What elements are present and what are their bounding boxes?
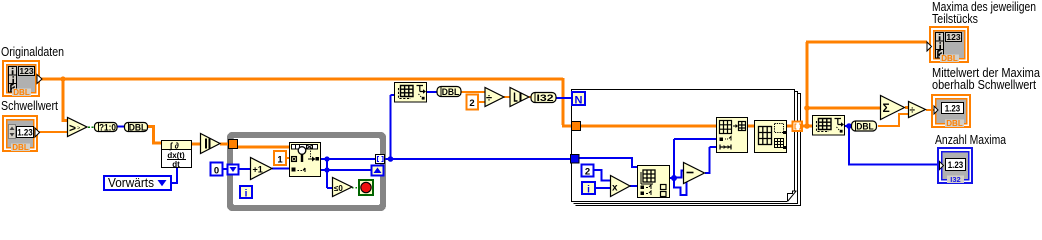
svg-text:Vorwärts: Vorwärts xyxy=(108,175,154,190)
svg-text:÷: ÷ xyxy=(486,93,492,105)
svg-text:>: > xyxy=(77,126,80,132)
svg-text:DBL: DBL xyxy=(941,54,958,63)
svg-text:∫ ∂: ∫ ∂ xyxy=(169,140,179,150)
svg-text:Teilstücks: Teilstücks xyxy=(932,11,978,26)
svg-text:1: 1 xyxy=(277,155,283,166)
svg-text:DBL: DBL xyxy=(12,143,29,152)
svg-text:Anzahl Maxima: Anzahl Maxima xyxy=(935,132,1007,147)
svg-text:0: 0 xyxy=(214,166,219,177)
svg-text:I32: I32 xyxy=(537,93,554,104)
svg-text:oberhalb Schwellwert: oberhalb Schwellwert xyxy=(932,77,1036,92)
svg-text:DBL: DBL xyxy=(129,122,147,133)
svg-text:DBL: DBL xyxy=(13,88,30,97)
svg-text:Schwellwert: Schwellwert xyxy=(1,98,58,113)
svg-text:÷: ÷ xyxy=(910,106,916,117)
svg-text:2: 2 xyxy=(585,167,590,178)
svg-text:dt: dt xyxy=(172,160,180,169)
svg-text:+1: +1 xyxy=(253,164,263,174)
svg-text:1.23: 1.23 xyxy=(17,128,33,138)
svg-text:N: N xyxy=(575,94,583,106)
svg-text:Originaldaten: Originaldaten xyxy=(1,44,64,59)
svg-text:?1:0: ?1:0 xyxy=(99,122,116,133)
svg-text:1.23: 1.23 xyxy=(945,104,961,114)
svg-text:i: i xyxy=(245,189,248,200)
svg-text:123: 123 xyxy=(19,66,33,76)
svg-text:I32: I32 xyxy=(950,175,960,184)
svg-text:DBL: DBL xyxy=(856,121,874,132)
svg-text:1.23: 1.23 xyxy=(948,160,964,170)
svg-text:x: x xyxy=(612,183,618,194)
svg-text:Σ: Σ xyxy=(883,101,890,115)
svg-text:≤0: ≤0 xyxy=(334,184,343,193)
svg-text:123: 123 xyxy=(946,32,960,42)
svg-text:DBL: DBL xyxy=(442,87,460,98)
svg-text:>: > xyxy=(69,121,76,135)
svg-text:DBL: DBL xyxy=(946,119,963,128)
svg-text:2: 2 xyxy=(469,98,474,109)
svg-text:i: i xyxy=(587,185,590,196)
svg-text:dx(t): dx(t) xyxy=(167,151,185,160)
